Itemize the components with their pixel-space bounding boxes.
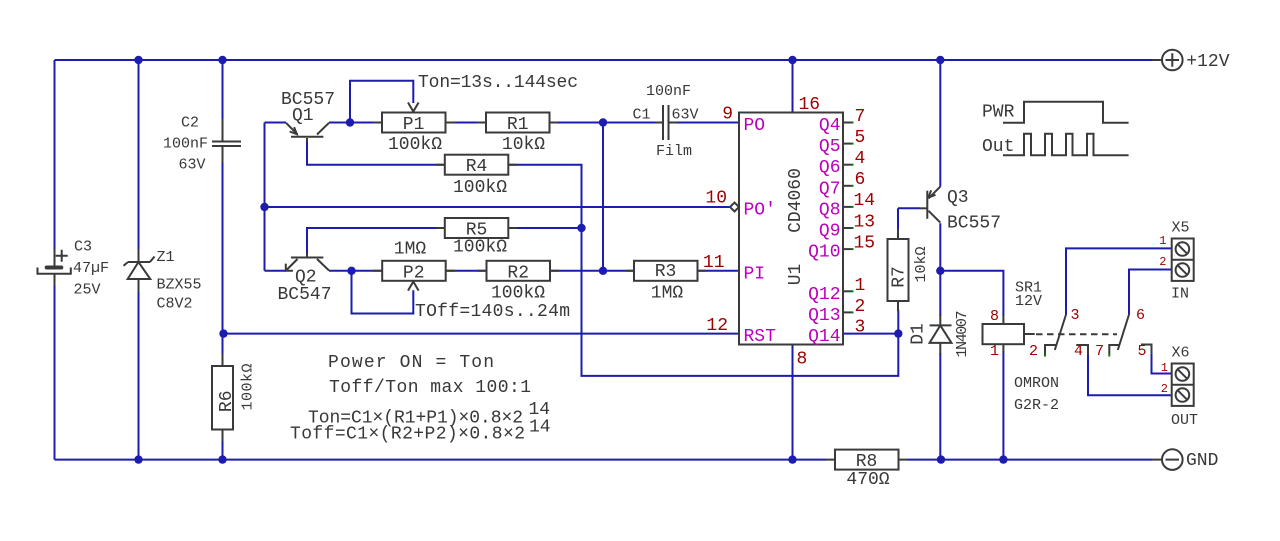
svg-text:X6: X6 xyxy=(1172,345,1190,362)
wire relay pin5 to X6 pin1 xyxy=(1152,353,1172,373)
svg-text:100kΩ: 100kΩ xyxy=(388,135,442,155)
svg-text:2: 2 xyxy=(1029,343,1038,360)
svg-text:47µF: 47µF xyxy=(73,260,109,277)
wire R5 right xyxy=(508,227,581,229)
pin names right xyxy=(808,116,840,347)
wire Q3 emitter from rail xyxy=(939,60,941,187)
pin 10 diamond xyxy=(730,203,739,212)
relay contact pin 5 xyxy=(1137,343,1151,360)
svg-text:100kΩ: 100kΩ xyxy=(240,364,257,411)
svg-text:CD4060: CD4060 xyxy=(786,168,806,233)
potentiometer P2 xyxy=(373,240,455,291)
wire bottom GND rail left of R8 xyxy=(55,459,827,461)
svg-text:4: 4 xyxy=(1074,343,1083,360)
junction rail-Q3 xyxy=(936,56,944,64)
zener diode Z1 xyxy=(124,249,202,313)
svg-text:10kΩ: 10kΩ xyxy=(502,135,545,155)
transistor Q3 xyxy=(920,187,1001,234)
svg-text:100nF: 100nF xyxy=(646,83,691,100)
svg-text:Out: Out xyxy=(982,137,1014,157)
svg-text:BC547: BC547 xyxy=(278,285,332,305)
wire R7 top to Q3 base xyxy=(898,208,920,230)
svg-text:14: 14 xyxy=(854,191,876,211)
supply symbol GND xyxy=(1153,449,1219,471)
wire R4 right feedback down to Q14 xyxy=(508,165,898,376)
node A R1/C1 junction xyxy=(599,118,607,126)
junction rail-Z1 xyxy=(134,56,142,64)
svg-text:Q13: Q13 xyxy=(808,306,840,326)
svg-text:1MΩ: 1MΩ xyxy=(651,284,684,304)
wire C1 right to pin9 PO xyxy=(676,122,739,124)
svg-text:12: 12 xyxy=(706,316,728,336)
svg-text:PWR: PWR xyxy=(982,103,1015,123)
junction R8-D1 xyxy=(937,455,945,463)
junction RST-C2/R6 xyxy=(219,329,227,337)
capacitor C1 xyxy=(633,83,699,160)
svg-text:1: 1 xyxy=(855,276,866,296)
label TOff xyxy=(415,302,570,322)
relay SR1 coil xyxy=(983,280,1060,415)
supply symbol +12V xyxy=(1152,50,1230,72)
svg-text:16: 16 xyxy=(799,95,821,115)
svg-text:10: 10 xyxy=(705,189,727,209)
relay contact pins 2/3 xyxy=(1029,307,1080,360)
pin stubs Q4-Q13 xyxy=(843,123,854,313)
wire R2 right to R3 junction xyxy=(550,270,634,272)
wire PO' pin10 horizontal xyxy=(265,206,731,208)
svg-text:RST: RST xyxy=(744,327,777,347)
junction gnd-Z1 xyxy=(134,455,142,463)
svg-text:GND: GND xyxy=(1186,451,1218,471)
wire Q2 base to R5 xyxy=(307,228,445,256)
resistor R4 xyxy=(436,155,517,198)
svg-text:U1: U1 xyxy=(786,264,806,286)
junction rail-pin16 xyxy=(788,56,796,64)
resistor R7 xyxy=(888,230,931,312)
svg-text:Q4: Q4 xyxy=(819,116,841,136)
IC U1 CD4060 outline xyxy=(739,113,843,345)
svg-text:6: 6 xyxy=(855,170,866,190)
svg-text:D1: D1 xyxy=(909,323,929,345)
pin number 16 xyxy=(799,95,821,115)
wire C2/R6 vertical branch with cap gap xyxy=(222,60,224,460)
wire RST pin12 horizontal xyxy=(224,333,740,335)
resistor R5 xyxy=(436,218,517,258)
wire Q1 base to R4 xyxy=(307,140,445,165)
capacitor C3 xyxy=(38,239,110,299)
wire Q3 collector node to relay coil xyxy=(940,271,1003,316)
junction R5-feedback xyxy=(577,224,585,232)
junction gnd-R6 xyxy=(218,455,226,463)
wire relay pin6 to X5 pin2 xyxy=(1129,270,1172,315)
svg-text:4: 4 xyxy=(855,149,866,169)
svg-text:Q5: Q5 xyxy=(819,137,841,157)
svg-text:+12V: +12V xyxy=(1186,52,1229,72)
resistor R8 xyxy=(826,450,908,490)
svg-text:OUT: OUT xyxy=(1171,412,1198,429)
svg-text:470Ω: 470Ω xyxy=(846,470,889,490)
wire top +12V rail xyxy=(55,59,1153,61)
resistor R3 xyxy=(626,261,706,304)
svg-text:Z1: Z1 xyxy=(157,249,175,266)
wire pin16 to rail xyxy=(792,60,794,113)
svg-text:R3: R3 xyxy=(655,262,677,282)
svg-text:R2: R2 xyxy=(507,263,529,283)
svg-text:8: 8 xyxy=(797,350,808,370)
wire R7 bottom to Q14 node xyxy=(897,310,899,334)
svg-text:11: 11 xyxy=(703,253,725,273)
svg-text:5: 5 xyxy=(1137,343,1146,360)
svg-text:1MΩ: 1MΩ xyxy=(394,240,427,260)
svg-text:R1: R1 xyxy=(507,115,529,135)
svg-text:P1: P1 xyxy=(403,115,425,135)
svg-text:Q8: Q8 xyxy=(819,200,841,220)
svg-text:G2R-2: G2R-2 xyxy=(1014,397,1059,414)
relay linkage dashed line xyxy=(1036,333,1117,335)
svg-text:1: 1 xyxy=(990,343,999,360)
junction PO' emitters xyxy=(260,203,268,211)
svg-text:BZX55: BZX55 xyxy=(157,277,202,294)
svg-text:12V: 12V xyxy=(1015,293,1042,310)
svg-text:C8V2: C8V2 xyxy=(157,296,193,313)
svg-text:1: 1 xyxy=(1159,234,1166,248)
wire relay coil pin1 to rail xyxy=(1002,351,1004,460)
wire P1 to R1 xyxy=(445,122,486,124)
pin names left xyxy=(744,116,777,347)
relay contact pin 4 xyxy=(1074,343,1088,360)
svg-text:13: 13 xyxy=(854,212,876,232)
svg-text:R4: R4 xyxy=(466,157,488,177)
svg-text:14: 14 xyxy=(529,418,551,438)
connector X5 xyxy=(1159,220,1193,303)
svg-text:8: 8 xyxy=(990,308,999,325)
capacitor C2 xyxy=(163,115,241,174)
svg-text:Power ON = Ton: Power ON = Ton xyxy=(328,353,494,373)
resistor R6 xyxy=(212,354,257,441)
connector X6 xyxy=(1161,345,1198,430)
pin numbers right xyxy=(854,107,876,338)
svg-text:R6: R6 xyxy=(217,390,237,412)
svg-text:Q1: Q1 xyxy=(292,106,314,126)
svg-text:R7: R7 xyxy=(890,266,910,288)
pin numbers left xyxy=(703,105,733,337)
wire R3 right to pin11 PI xyxy=(698,270,740,272)
wire relay pin3 to X5 pin1 xyxy=(1066,248,1172,314)
svg-text:5: 5 xyxy=(855,128,866,148)
resistor R2 xyxy=(477,261,559,304)
svg-text:Q9: Q9 xyxy=(819,222,841,242)
svg-text:9: 9 xyxy=(722,105,733,125)
transistor Q2 xyxy=(278,254,332,306)
svg-text:10kΩ: 10kΩ xyxy=(913,247,930,283)
waveform Out xyxy=(982,134,1129,157)
pin number 8 xyxy=(797,350,808,370)
diode D1 xyxy=(909,311,972,358)
svg-text:2: 2 xyxy=(855,297,866,317)
waveform PWR xyxy=(982,102,1129,123)
wire pin8 to ground rail xyxy=(792,345,794,460)
svg-text:100kΩ: 100kΩ xyxy=(491,284,545,304)
svg-text:3: 3 xyxy=(855,318,866,338)
svg-text:3: 3 xyxy=(1071,307,1080,324)
wire Q3 collector down through D1 to rail xyxy=(939,223,941,459)
svg-text:Toff=C1×(R2+P2)×0.8×2: Toff=C1×(R2+P2)×0.8×2 xyxy=(290,425,525,445)
formula text block xyxy=(290,353,551,445)
junction Q14-R7 xyxy=(894,329,902,337)
svg-text:Q7: Q7 xyxy=(819,179,841,199)
svg-text:63V: 63V xyxy=(672,107,699,124)
label Ton xyxy=(418,73,578,93)
junction gnd-pin8 xyxy=(788,455,796,463)
svg-text:7: 7 xyxy=(1095,343,1104,360)
svg-text:1N4007: 1N4007 xyxy=(954,311,971,358)
wire node vertical R1/C1 to R3 junction xyxy=(602,123,604,271)
svg-text:PO: PO xyxy=(744,116,766,136)
svg-text:X5: X5 xyxy=(1172,220,1190,237)
svg-text:P2: P2 xyxy=(403,263,425,283)
svg-text:15: 15 xyxy=(854,234,876,254)
svg-text:BC557: BC557 xyxy=(947,214,1001,234)
wire R1 right to C1 node xyxy=(550,122,657,124)
svg-text:100kΩ: 100kΩ xyxy=(453,238,507,258)
wire Q14 pin3 to R7 node xyxy=(843,333,898,335)
wire Q2 collector to P2 xyxy=(329,270,382,272)
wire P2 wiper loop xyxy=(352,271,414,314)
junction R8-coil xyxy=(999,455,1007,463)
svg-text:Q6: Q6 xyxy=(819,158,841,178)
svg-text:Q14: Q14 xyxy=(808,327,840,347)
wire Z1 vertical branch xyxy=(138,60,140,460)
svg-text:R8: R8 xyxy=(856,452,878,472)
svg-text:Toff/Ton max 100:1: Toff/Ton max 100:1 xyxy=(329,378,531,398)
svg-text:7: 7 xyxy=(855,107,866,127)
node B R2/R3 junction xyxy=(599,267,607,275)
svg-text:1: 1 xyxy=(1161,361,1168,375)
junction rail-C2 xyxy=(218,56,226,64)
svg-text:Q12: Q12 xyxy=(808,285,840,305)
potentiometer P1 xyxy=(373,103,455,156)
wire bottom GND rail right of R8 xyxy=(908,459,1153,461)
svg-text:IN: IN xyxy=(1171,286,1189,303)
wire P1 wiper loop xyxy=(350,81,413,123)
svg-text:C2: C2 xyxy=(181,115,199,132)
svg-text:6: 6 xyxy=(1136,307,1145,324)
transistor Q1 xyxy=(281,90,335,142)
svg-text:2: 2 xyxy=(1161,382,1168,396)
svg-text:PI: PI xyxy=(744,264,766,284)
wire left rail with C3 gap xyxy=(54,60,56,460)
relay contact pins 6/7 xyxy=(1095,307,1145,360)
junction Q1-collector P1 wiper xyxy=(346,118,354,126)
svg-text:100nF: 100nF xyxy=(163,136,208,153)
svg-text:C3: C3 xyxy=(74,239,92,256)
svg-text:25V: 25V xyxy=(74,282,101,299)
junction Q2-collector P2 wiper xyxy=(347,267,355,275)
svg-text:63V: 63V xyxy=(179,157,206,174)
junction Q3-collector coil xyxy=(936,267,944,275)
svg-text:100kΩ: 100kΩ xyxy=(453,178,507,198)
wire relay pin4 to X6 pin2 xyxy=(1088,355,1172,396)
svg-text:Q3: Q3 xyxy=(947,188,969,208)
svg-text:Film: Film xyxy=(656,143,692,160)
wire P2 to R2 xyxy=(446,270,487,272)
wire Q1 collector to P1 xyxy=(329,122,382,124)
wire Q1/Q2 emitters to PO' vertical xyxy=(265,123,287,271)
svg-text:2: 2 xyxy=(1159,255,1166,269)
svg-text:C1: C1 xyxy=(633,107,651,124)
svg-text:Q10: Q10 xyxy=(808,243,840,263)
svg-text:Ton=13s..144sec: Ton=13s..144sec xyxy=(418,73,578,93)
svg-text:PO': PO' xyxy=(744,201,776,221)
resistor R1 xyxy=(477,113,558,156)
svg-text:OMRON: OMRON xyxy=(1014,375,1059,392)
svg-text:TOff=140s..24m: TOff=140s..24m xyxy=(415,302,570,322)
